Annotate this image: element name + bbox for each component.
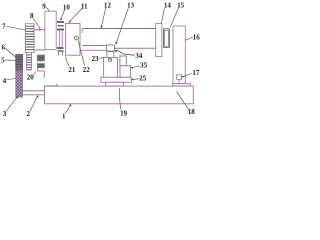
rack column 8 (striped, wide upper part) xyxy=(25,24,34,53)
svg-text:25: 25 xyxy=(139,75,147,83)
leader 11 xyxy=(70,8,83,22)
svg-text:16: 16 xyxy=(193,33,201,41)
svg-text:20: 20 xyxy=(27,73,35,81)
svg-text:5: 5 xyxy=(1,56,5,64)
leader 2 xyxy=(30,97,37,112)
leader 14 xyxy=(161,8,164,24)
leader 17 xyxy=(182,73,192,77)
leader 18 xyxy=(177,92,189,110)
cylinder 12 body xyxy=(82,28,156,30)
foot under plate xyxy=(106,82,124,86)
leader 12 xyxy=(102,8,106,27)
wire: upper shaft from rack to gearbox 9 xyxy=(24,29,45,31)
leader 34 xyxy=(117,50,135,55)
leader 7 xyxy=(6,26,24,30)
dark block 5 (upper dense part of wall) xyxy=(16,55,23,71)
clamp boxes 13/23 under cylinder xyxy=(106,45,114,51)
svg-text:10: 10 xyxy=(63,3,71,11)
plate 25 xyxy=(101,77,131,82)
pedestal xyxy=(120,66,131,78)
leader 9 xyxy=(46,8,49,12)
svg-text:8: 8 xyxy=(30,12,34,20)
leader 6 xyxy=(5,48,16,58)
nut 17 on bracket foot xyxy=(177,75,182,79)
leader 13 xyxy=(116,8,128,43)
leader 5 xyxy=(5,59,16,61)
svg-text:1: 1 xyxy=(62,112,66,120)
motor box 11 xyxy=(66,24,80,56)
leader 23 xyxy=(99,57,105,60)
leader 21 xyxy=(66,56,70,66)
leader 3 xyxy=(6,97,17,111)
bracket foot xyxy=(173,84,191,87)
bracket under slider xyxy=(37,68,44,78)
svg-text:3: 3 xyxy=(3,110,7,118)
flange 14 xyxy=(156,24,162,57)
leader 16 xyxy=(186,37,193,40)
base bed 1 xyxy=(45,86,194,104)
leader 35 xyxy=(131,66,140,68)
end bracket 16 xyxy=(173,26,185,84)
leader 4 xyxy=(7,78,16,80)
svg-text:17: 17 xyxy=(192,69,200,77)
leader 22 xyxy=(78,41,84,66)
bearing 15 xyxy=(164,29,170,48)
slider blocks 20 (green) xyxy=(37,55,44,61)
upright bracket with screw xyxy=(104,57,118,77)
gearbox 9 xyxy=(45,11,56,49)
svg-text:15: 15 xyxy=(177,1,185,9)
svg-text:14: 14 xyxy=(164,1,172,9)
wire: lower shaft from rack to gearbox 9 xyxy=(32,49,45,51)
svg-text:18: 18 xyxy=(188,108,196,116)
svg-text:22: 22 xyxy=(83,66,91,74)
svg-text:4: 4 xyxy=(3,77,7,85)
screw circle on upright xyxy=(108,58,111,61)
connecting rod 2 xyxy=(23,90,45,92)
svg-text:19: 19 xyxy=(120,110,128,118)
leader 1 xyxy=(65,105,71,113)
svg-text:13: 13 xyxy=(127,1,135,9)
neck 35 xyxy=(120,56,126,66)
svg-text:35: 35 xyxy=(140,62,148,70)
screw circle on box 11 xyxy=(74,36,78,40)
svg-text:9: 9 xyxy=(42,3,46,11)
leader 15 xyxy=(170,8,178,28)
leader 8 xyxy=(33,18,40,28)
svg-text:6: 6 xyxy=(2,44,6,52)
svg-text:7: 7 xyxy=(2,22,6,30)
tick on base top xyxy=(56,84,58,86)
screw column lower narrow part xyxy=(26,52,32,69)
leader 20 xyxy=(34,71,36,74)
leader 25 xyxy=(132,78,140,81)
svg-text:12: 12 xyxy=(104,1,112,9)
svg-text:11: 11 xyxy=(81,2,88,10)
leader 10 xyxy=(61,9,65,19)
svg-text:23: 23 xyxy=(92,55,100,63)
svg-text:34: 34 xyxy=(135,52,143,60)
svg-text:2: 2 xyxy=(26,110,30,118)
hatched wall 4 xyxy=(16,55,23,98)
coupling column 10 xyxy=(57,22,64,56)
svg-text:21: 21 xyxy=(68,66,76,74)
leader 19 xyxy=(119,88,121,110)
